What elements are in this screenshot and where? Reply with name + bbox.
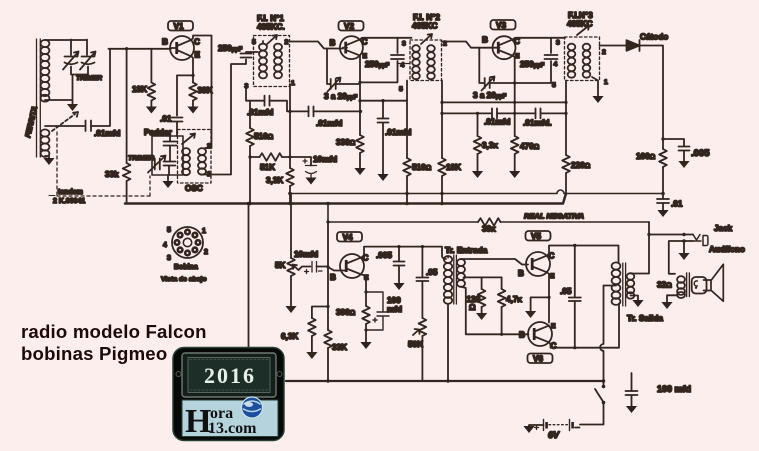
svg-text:5K: 5K: [275, 261, 286, 270]
ground under 10mfd: [305, 178, 316, 185]
speaker driver magnet: [692, 277, 707, 294]
32 ohm label: [657, 281, 672, 290]
ground under .005: [393, 283, 404, 290]
V3 pin labels: [482, 36, 520, 61]
Vista de abajo label: [161, 276, 207, 283]
resistor 510 ohm (T2): [403, 101, 411, 206]
wire V6 collector: [549, 304, 619, 350]
capacitor .05 (push-pull): [569, 246, 581, 348]
volume pot 5K riser: [289, 194, 293, 259]
driver transformer Tr.Entrada primary: [444, 256, 452, 304]
ground under 390: [360, 342, 371, 349]
wire cap to V2 base riser: [314, 110, 363, 113]
svg-text:.01: .01: [160, 115, 172, 124]
F.I. No2 label: [412, 13, 440, 31]
speaker coil 32 ohm: [677, 276, 685, 298]
svg-text:33K: 33K: [332, 343, 347, 352]
Tr.Salida secondary: [627, 273, 635, 298]
svg-text:100: 100: [387, 296, 401, 305]
svg-text:B: B: [518, 269, 524, 278]
resistor 390 ohm: [362, 306, 370, 342]
svg-text:50K: 50K: [408, 340, 423, 349]
T1 primary winding: [259, 41, 267, 78]
driver transformer primary lead: [447, 256, 449, 258]
ground under .01mfd: [377, 174, 388, 181]
capacitor 250uuF (V3): [545, 55, 558, 59]
capacitor .01mfd (V2 emitter bypass): [378, 99, 389, 174]
svg-text:.01: .01: [671, 200, 683, 209]
510 ohm label: [412, 163, 432, 172]
V3 emitter riser: [513, 56, 517, 136]
capacitor 250uuF (V2): [391, 55, 404, 59]
svg-text:mfd: mfd: [387, 305, 402, 314]
.05 label: [560, 287, 572, 296]
transistor V6: [528, 322, 552, 346]
Catodo label: [640, 33, 668, 42]
.01 label: [671, 200, 683, 209]
.005 label: [376, 251, 392, 260]
50K label: [408, 340, 423, 349]
330 ohm label: [336, 138, 356, 147]
transistor V5: [526, 252, 550, 276]
svg-text:.005: .005: [691, 148, 710, 159]
svg-text:V2: V2: [344, 22, 354, 31]
IF transformer T1 dashed box: [254, 36, 290, 87]
transistor V4: [340, 254, 364, 278]
svg-text:Tr. Entrada: Tr. Entrada: [445, 246, 488, 255]
antenna coil L1 upper winding: [41, 40, 50, 102]
3 a 20uuF label: [324, 92, 358, 101]
resistor 51K horizontal: [250, 153, 290, 161]
wire V2 collector to T2: [360, 38, 412, 40]
svg-text:510Ω: 510Ω: [412, 163, 432, 172]
ground under 120: [476, 313, 487, 320]
wire T1 pin1 chain: [288, 84, 291, 168]
wire lower winding to C1: [45, 125, 84, 127]
3,3K label: [482, 141, 498, 150]
wire V4 collector branch: [361, 247, 446, 259]
capacitor .01mfd (V2 base coupling): [309, 106, 314, 116]
svg-text:B: B: [162, 38, 168, 47]
svg-text:100Ω: 100Ω: [636, 152, 656, 161]
Tr.Entrada primary bottom riser: [446, 304, 450, 383]
T3 primary winding: [568, 44, 576, 78]
capacitor .01mfd (line2 b): [536, 108, 541, 118]
.05 label: [426, 268, 438, 277]
ground under lower winding: [43, 156, 54, 165]
title: radio modelo Falcon: [21, 321, 207, 342]
svg-text:465KC: 465KC: [412, 22, 438, 31]
V1 designator box: [168, 21, 193, 31]
svg-text:13.com: 13.com: [208, 420, 257, 437]
Tr.Entrada secondary: [457, 259, 465, 287]
6V label: [548, 430, 560, 440]
trimmer tuning cap CV1a: [63, 52, 79, 70]
svg-text:2: 2: [285, 39, 289, 46]
resistor 33K: [324, 220, 332, 382]
audio bias rail: [326, 202, 649, 222]
capacitor .005 (V4): [394, 245, 405, 283]
svg-text:B: B: [519, 331, 525, 340]
svg-text:1: 1: [291, 80, 295, 87]
svg-text:tandem: tandem: [58, 189, 83, 196]
wire V5 collector: [547, 244, 619, 263]
output transformer Tr.Salida primary: [612, 262, 621, 305]
svg-text:4: 4: [163, 242, 167, 249]
detector node branch: [661, 137, 684, 146]
main ground bus: [125, 194, 566, 204]
10mfd label: [294, 250, 318, 259]
padder TRIMER cap: [148, 156, 166, 173]
on-off switch: [595, 381, 605, 404]
svg-text:B: B: [330, 273, 336, 282]
100 mfd label: [387, 296, 402, 314]
TRIMER small label: [128, 155, 154, 162]
capacitor 10mfd electrolytic: [303, 159, 317, 178]
resistor 3,3K (V3): [474, 112, 482, 171]
V1 pin labels B C E: [162, 38, 201, 60]
svg-text:E: E: [515, 53, 520, 60]
ground under 330: [354, 168, 365, 175]
T2 primary winding: [412, 45, 420, 79]
Audifono label: [709, 245, 745, 254]
Tr.Salida core: [623, 263, 626, 306]
T1 pin numbers: [245, 39, 296, 90]
svg-text:B: B: [482, 36, 488, 45]
T2 secondary winding: [427, 45, 435, 79]
T3 pin5 riser: [564, 81, 567, 156]
svg-text:Ω: Ω: [469, 303, 476, 312]
FERRITA label: [23, 105, 39, 138]
capacitor C2 .01 (osc coupling): [172, 118, 183, 137]
T1 tuning arrow: [266, 35, 277, 45]
ground under jack: [678, 241, 689, 260]
10mfd label: [313, 155, 337, 164]
jack audifono: [682, 235, 708, 246]
svg-text:bobinas Pigmeo: bobinas Pigmeo: [21, 343, 167, 364]
svg-text:3,3K: 3,3K: [266, 176, 283, 185]
wire antenna top to tuning caps: [45, 40, 87, 56]
T3 pin1 ground: [592, 77, 604, 103]
wire to pin1 riser: [270, 101, 309, 112]
badge globe icon: [242, 397, 263, 418]
wire 510 to bus: [248, 155, 252, 205]
OSC tuning arrow: [182, 134, 195, 145]
svg-text:3: 3: [167, 255, 171, 262]
trimmer cap 3 a 20uuF (V3): [482, 77, 495, 91]
250uuF label: [365, 60, 390, 69]
svg-text:E: E: [550, 273, 555, 280]
padder capacitor Ca: [164, 136, 177, 162]
ground under 3,3K: [472, 171, 483, 178]
5K label: [275, 261, 286, 270]
coupling cap .05 riser: [421, 245, 424, 318]
ground under 18K: [146, 107, 157, 114]
speaker coil return ground: [661, 295, 677, 309]
capacitor C1 .01mfd (antenna coupling): [86, 121, 92, 132]
250uuF label: [218, 44, 243, 53]
transistor V3: [493, 36, 516, 59]
OSC coil left winding: [182, 148, 190, 175]
T2 pin numbers: [399, 41, 447, 94]
wire tuning caps bottom: [45, 67, 88, 105]
resistor 39K: [189, 83, 197, 107]
antenna coil L1 lower winding: [41, 129, 50, 157]
T1 secondary winding: [274, 44, 282, 79]
100 ohm label: [636, 152, 656, 161]
svg-text:TRIMER: TRIMER: [76, 75, 102, 82]
resistor 330 ohm (V2 emitter): [356, 135, 364, 168]
510 ohm label: [254, 132, 274, 141]
svg-text:E: E: [195, 51, 201, 60]
svg-text:V3: V3: [496, 21, 506, 30]
potentiometer 5K: [287, 258, 298, 276]
padder box: [152, 136, 183, 175]
svg-text:18K: 18K: [132, 85, 147, 94]
wire T1 pin3 down: [246, 87, 265, 101]
capacitor 100mfd electrolytic: [366, 292, 389, 330]
svg-text:.01mfd: .01mfd: [316, 119, 342, 128]
badge 2016 text: [204, 363, 256, 388]
T2 tuning arrow: [421, 34, 432, 44]
V3 base bias riser: [479, 48, 514, 83]
capacitor 250uuF (FI1 input): [241, 52, 259, 58]
39K label: [482, 225, 496, 234]
wire V3 AGC line 2: [442, 112, 566, 115]
wire pot wiper to 10mfd: [299, 267, 311, 271]
V2 emitter riser: [358, 56, 361, 135]
svg-text:.05: .05: [426, 268, 438, 277]
V2 pin labels: [330, 38, 368, 61]
svg-text:100 mfd: 100 mfd: [657, 384, 691, 394]
potentiometer 50K: [413, 318, 426, 381]
V2 designator box: [339, 21, 364, 31]
svg-text:V1: V1: [174, 22, 184, 31]
4,7K label: [506, 295, 522, 304]
trimmer tuning cap CV1b: [80, 52, 96, 70]
ganged-tuning dashed arrow: [52, 112, 78, 131]
ground under 39K: [187, 107, 198, 114]
svg-text:radio modelo Falcon: radio modelo Falcon: [21, 321, 207, 342]
svg-text:33k: 33k: [105, 170, 119, 179]
coil socket diagram: [172, 227, 203, 258]
Bobina label: [174, 264, 198, 271]
svg-text:V5: V5: [531, 232, 541, 241]
100 mfd label: [657, 384, 691, 394]
svg-text:5: 5: [399, 86, 403, 93]
ground under padder: [162, 175, 173, 188]
svg-text:B: B: [330, 39, 336, 48]
V4 designator box: [337, 232, 362, 242]
wire V3 collector to T3: [513, 38, 565, 40]
wire V4 emitter: [361, 274, 368, 306]
svg-text:Tr. Salida: Tr. Salida: [627, 314, 663, 323]
capacitor 100mfd (supply filter): [626, 373, 638, 406]
.005 label: [691, 148, 710, 159]
wire 51K node to 10mfd: [288, 155, 311, 165]
resistor 18K: [148, 49, 156, 107]
.01mfd. label: [523, 119, 552, 128]
audio ground bus: [286, 380, 604, 382]
svg-text:E: E: [363, 53, 368, 60]
IF transformer T2 dashed box: [410, 40, 442, 81]
svg-text:5: 5: [252, 39, 256, 46]
svg-text:OSC: OSC: [185, 184, 203, 193]
svg-text:39K: 39K: [198, 86, 213, 95]
.01mfd label: [484, 118, 510, 127]
Hora13 badge background: [173, 348, 284, 441]
18K label: [132, 85, 147, 94]
svg-text:465KC.: 465KC.: [257, 23, 285, 32]
Tr.Entrada core: [454, 255, 457, 304]
wire T2 pin4: [398, 63, 411, 65]
resistor 18K (T2): [438, 81, 446, 206]
svg-text:470Ω: 470Ω: [520, 142, 540, 151]
Tr. Entrada label: [445, 246, 488, 255]
tandem label: [49, 189, 85, 205]
speaker horn: [704, 264, 724, 301]
svg-text:Audífono: Audífono: [709, 245, 745, 254]
svg-text:6V: 6V: [548, 430, 560, 440]
svg-text:E: E: [551, 323, 556, 330]
svg-text:Cátodo: Cátodo: [640, 33, 668, 42]
wire jack to speaker coil: [669, 241, 693, 274]
socket pin numbers: [163, 227, 208, 262]
Tr. Salida label: [627, 314, 663, 323]
resistor 220 ohm: [562, 155, 570, 194]
svg-text:.01mfd: .01mfd: [247, 108, 273, 117]
svg-text:3: 3: [556, 40, 560, 47]
svg-text:Jack: Jack: [714, 224, 733, 233]
battery 6V: [535, 420, 580, 431]
39K label: [198, 86, 213, 95]
T3 tuning arrow: [577, 26, 589, 36]
svg-text:4: 4: [554, 61, 558, 68]
svg-text:32Ω: 32Ω: [657, 281, 672, 290]
resistor 120 ohm: [478, 277, 486, 313]
transistor V1: [170, 36, 194, 60]
T3 secondary winding: [583, 44, 591, 78]
TRIMER label: [76, 75, 102, 82]
capacitor .05 (V4 out): [416, 278, 428, 282]
svg-text:V4: V4: [343, 233, 353, 242]
V5 pin labels: [518, 252, 555, 281]
ground under 6,3K: [306, 352, 317, 359]
OSC coil right winding: [198, 148, 206, 175]
wire T2 pin2 to V3 base: [442, 42, 496, 48]
wire V5 emitter to V6 emitter: [547, 272, 551, 322]
V3 designator box: [491, 20, 516, 30]
Tr.Salida secondary ground: [631, 296, 644, 308]
capacitor .01 (detector filter): [657, 194, 669, 211]
svg-text:REAL NEGATIVA: REAL NEGATIVA: [524, 212, 584, 221]
transistor V2: [340, 36, 363, 59]
bias wire 120/4.7K: [464, 276, 502, 278]
svg-text:1: 1: [604, 79, 608, 86]
svg-text:Bobina: Bobina: [174, 264, 198, 271]
wire V1 emitter node: [191, 56, 194, 82]
OSC dashed box: [178, 130, 212, 184]
svg-text:1: 1: [202, 228, 206, 235]
Jack label: [714, 224, 733, 233]
wire V3 AGC line 1: [442, 101, 566, 104]
V6 pin labels: [519, 323, 557, 351]
diode detector: [627, 40, 640, 51]
T3 pin numbers: [552, 40, 608, 90]
svg-text:18K: 18K: [446, 163, 461, 172]
wire switch to battery: [580, 404, 604, 425]
svg-text:51K: 51K: [260, 163, 275, 172]
svg-text:.01mfd: .01mfd: [94, 129, 120, 138]
wire diode to detector node: [638, 46, 663, 140]
ground under tuning caps: [67, 104, 78, 111]
capacitor .01mfd (line2 a): [492, 108, 497, 118]
svg-text:3: 3: [402, 41, 406, 48]
wire secondary top to jack line: [631, 233, 651, 274]
resistor 3,3K (T1): [286, 168, 294, 205]
wire secondary bottom to V6 base: [461, 287, 529, 335]
V4 pin labels: [330, 254, 369, 283]
resistor 4,7K: [498, 277, 506, 336]
svg-text:2: 2: [204, 249, 208, 256]
18K label: [446, 163, 461, 172]
wire collector cell right edge: [360, 38, 398, 83]
wire battery to ground: [523, 425, 543, 433]
svg-text:5: 5: [167, 227, 171, 234]
AVC feed riser to audio: [247, 202, 251, 351]
svg-text:5: 5: [552, 82, 556, 89]
svg-text:TRIMER: TRIMER: [128, 155, 154, 162]
badge 2016 plaque frame: [176, 353, 282, 397]
emitter ground arrow: [525, 297, 549, 318]
wire secondary top to V5 base: [461, 259, 528, 265]
V5 designator box: [526, 231, 551, 241]
F.I. No3 label: [567, 11, 593, 29]
220 ohm label: [571, 161, 591, 170]
wire 10mfd to V4 base: [317, 265, 346, 270]
IF transformer T3 dashed box: [565, 37, 600, 81]
33k label: [105, 170, 119, 179]
wire C1 to V1 base riser: [91, 49, 110, 126]
capacitor 10mfd (input coupling): [305, 262, 323, 274]
F.I. No1 label: [257, 14, 285, 32]
33K label: [332, 343, 347, 352]
.01mfd label: [247, 108, 273, 117]
svg-text:C: C: [362, 38, 368, 47]
wire V1 base bus: [109, 47, 172, 50]
wire OSC bottom to 250uuF: [202, 60, 246, 175]
resistor 100 ohm: [659, 139, 667, 195]
OSC pin 2 and 1: [207, 143, 211, 178]
51K label: [260, 163, 275, 172]
ground under 100mfd: [626, 406, 637, 413]
svg-text:.005: .005: [376, 251, 392, 260]
svg-text:39K: 39K: [482, 225, 496, 234]
470 ohm label: [520, 142, 540, 151]
3 a 20uuF label: [473, 91, 507, 100]
svg-text:2: 2: [602, 49, 606, 56]
svg-text:220Ω: 220Ω: [571, 161, 591, 170]
wire rail to jack: [649, 222, 693, 236]
wire T2 pin5 line: [360, 81, 407, 101]
.01mfd label: [94, 129, 120, 138]
OSC label: [185, 184, 203, 193]
.01mfd label: [316, 119, 342, 128]
wire V1 collector to OSC: [192, 36, 212, 149]
speaker coil core: [687, 273, 690, 297]
capacitor .005: [679, 147, 690, 162]
svg-text:2 K.00041: 2 K.00041: [53, 198, 85, 205]
